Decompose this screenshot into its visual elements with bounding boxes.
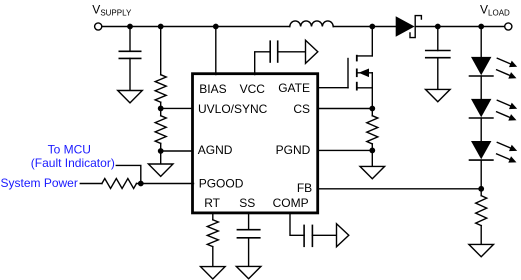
resistor R_CS sense <box>367 116 378 144</box>
LED D4 triangle <box>471 141 491 159</box>
wire fault indicator to PGOOD node <box>116 165 141 183</box>
wire D2 anode <box>480 27 482 57</box>
wire C_SS to ground <box>248 238 250 267</box>
transistor Q1 drain stub <box>357 55 373 57</box>
LED D2 triangle <box>471 57 491 75</box>
svg-text:RT: RT <box>204 196 220 210</box>
resistor R_UV1 <box>155 75 166 103</box>
LED D4 emission arrow <box>497 142 510 148</box>
wire C_VCC to arrow <box>278 51 306 53</box>
resistor R_PG pull-up <box>102 179 137 189</box>
svg-text:AGND: AGND <box>198 143 233 157</box>
LED D3 triangle <box>471 99 491 117</box>
arrow off-page VCC <box>306 40 318 63</box>
wire RT pin down <box>212 213 214 220</box>
node VIN: junction input cap <box>127 24 133 30</box>
node junction BIAS <box>213 24 219 30</box>
wire UVLO/SYNC pin <box>161 107 194 109</box>
node PGND junction <box>369 148 375 154</box>
LED D2 cathode bar <box>469 75 494 77</box>
svg-text:BIAS: BIAS <box>199 82 226 96</box>
wire inductor to diode <box>333 26 396 28</box>
wire GATE pin to Q1 <box>317 87 348 89</box>
svg-text:FB: FB <box>297 181 312 195</box>
wire R_UV2 to AGND node <box>160 143 162 164</box>
wire system power to resistor <box>80 183 102 185</box>
wire to output cap <box>437 27 439 51</box>
wire D4 anode <box>480 118 482 141</box>
svg-text:VSUPPLY: VSUPPLY <box>92 2 132 17</box>
LED D2 emission arrow <box>497 70 510 76</box>
transistor Q1 channel segments <box>356 55 358 62</box>
node PGOOD junction <box>138 181 144 187</box>
capacitor C_IN <box>119 50 142 52</box>
ground input cap <box>118 91 143 103</box>
capacitor C_COMP <box>303 225 305 248</box>
LED D4 emission arrow <box>497 154 510 160</box>
wire drain to rail <box>371 27 373 56</box>
svg-text:COMP: COMP <box>273 196 309 210</box>
LED D3 cathode bar <box>469 117 494 119</box>
wire FB pin to LED sense node <box>317 188 481 190</box>
ground output cap <box>426 89 451 101</box>
transistor Q1 source stub <box>357 87 373 89</box>
svg-text:GATE: GATE <box>278 81 310 95</box>
svg-text:(Fault Indicator): (Fault Indicator) <box>31 156 115 170</box>
wire to input cap <box>129 27 131 52</box>
wire LED string to FB node <box>480 160 482 196</box>
wire SS pin down <box>248 213 250 230</box>
wire CS pin <box>317 108 372 110</box>
node LED string junction <box>478 24 484 30</box>
ground SS <box>236 266 261 278</box>
svg-text:SS: SS <box>239 196 255 210</box>
wire D3 anode <box>480 76 482 99</box>
diode D1 cathode bar with schottky hooks <box>410 16 421 38</box>
LED D2 emission arrow <box>497 58 510 64</box>
LED D3 emission arrow <box>497 112 510 118</box>
ground RT <box>201 267 226 279</box>
wire R_UV1 to UVLO node <box>160 102 162 116</box>
svg-text:UVLO/SYNC: UVLO/SYNC <box>198 102 268 116</box>
wire BIAS pin to rail <box>215 27 217 75</box>
capacitor C_OUT <box>425 50 451 52</box>
node UVLO junction <box>158 106 164 112</box>
svg-text:CS: CS <box>293 102 310 116</box>
wire COMP pin down <box>290 213 304 235</box>
wire R_FB to ground <box>480 226 482 245</box>
wire source down to CS <box>371 73 373 116</box>
wire diode to VLOAD rail <box>415 26 504 28</box>
node FB junction <box>478 186 484 192</box>
V_LOAD terminal <box>505 23 512 30</box>
svg-text:PGND: PGND <box>276 143 311 157</box>
wire R_CS to PGND <box>371 144 373 167</box>
node AGND junction <box>158 148 164 154</box>
node junction divider <box>158 24 164 30</box>
wire rail to R_UV1 <box>160 27 162 75</box>
svg-text:System Power: System Power <box>1 176 78 190</box>
resistor R_FB current sense <box>476 196 487 226</box>
wire R_T to ground <box>212 247 214 267</box>
wire resistor to PGOOD pin <box>137 183 194 185</box>
capacitor C_VCC <box>269 40 271 62</box>
ground AGND <box>148 164 173 176</box>
wire top rail left <box>102 26 290 28</box>
resistor R_UV2 <box>155 116 166 144</box>
node SW: junction drain <box>369 24 375 30</box>
svg-text:VLOAD: VLOAD <box>480 2 510 17</box>
arrow off-page COMP <box>337 224 349 247</box>
transistor Q1 gate bar <box>347 59 349 88</box>
inductor L1 <box>290 21 333 27</box>
node CS junction <box>369 106 375 112</box>
IC U1 LED driver controller body <box>193 74 318 213</box>
diode D1 schottky triangle <box>396 16 415 37</box>
LED D3 emission arrow <box>497 100 510 106</box>
node output cap junction <box>435 24 441 30</box>
transistor Q1 body arrow <box>357 72 373 74</box>
svg-text:To MCU: To MCU <box>48 143 91 157</box>
capacitor C_SS <box>237 229 261 231</box>
wire VCC pin up <box>255 52 271 75</box>
wire output cap to ground <box>437 58 439 90</box>
wire C_COMP to arrow <box>312 234 336 236</box>
V_SUPPLY terminal <box>95 23 102 30</box>
svg-text:VCC: VCC <box>240 82 266 96</box>
ground R_FB <box>469 244 494 256</box>
wire AGND pin <box>161 150 194 152</box>
svg-text:PGOOD: PGOOD <box>199 177 244 191</box>
resistor R_T <box>207 220 218 247</box>
wire input cap to ground <box>129 58 131 90</box>
LED D4 cathode bar <box>469 159 494 161</box>
wire PGND pin <box>317 149 372 151</box>
ground PGND <box>360 166 385 178</box>
